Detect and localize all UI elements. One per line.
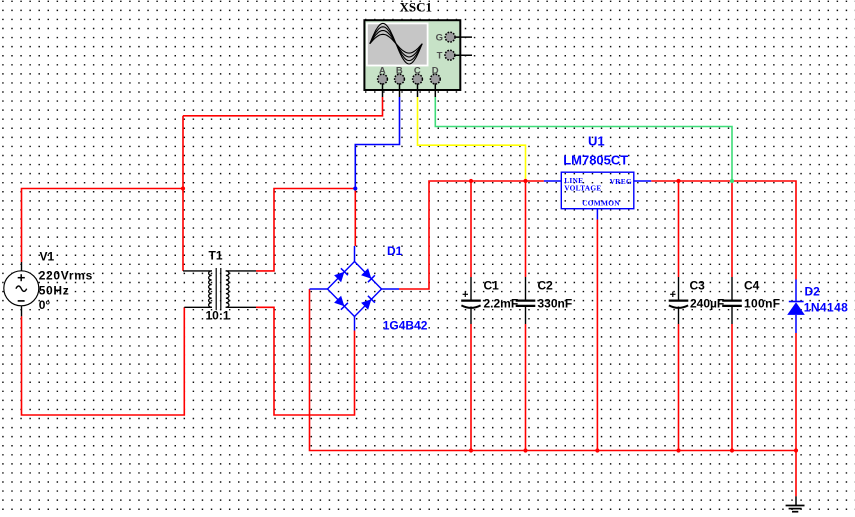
wire bridge minus to bottom bus bbox=[310, 289, 797, 451]
scope terminal B stub bbox=[399, 83, 401, 97]
wire scope channel B drop bbox=[355, 97, 399, 189]
label T1 refdes bbox=[209, 249, 223, 263]
label scope C bbox=[414, 65, 421, 76]
svg-text:D2: D2 bbox=[805, 285, 821, 299]
junction top bus C1 bbox=[469, 179, 473, 183]
label U1 refdes bbox=[588, 134, 605, 149]
wire V1 top lead (black stub) bbox=[21, 262, 23, 271]
label scope D bbox=[432, 65, 439, 76]
capacitor C2 symbol bbox=[516, 301, 536, 306]
wire V1 bottom loop to transformer primary bottom bbox=[22, 307, 185, 415]
scope terminal A stub bbox=[382, 83, 384, 97]
svg-text:1G4B42: 1G4B42 bbox=[383, 319, 428, 333]
junction bottom bus C2 bbox=[523, 448, 527, 452]
wire V1 bottom lead (black stub) bbox=[21, 305, 23, 317]
bridge rectifier D1 body bbox=[310, 246, 400, 331]
scope terminal C stub bbox=[417, 83, 419, 97]
wire C2 bottom lead (black) bbox=[525, 307, 527, 325]
node A junction bbox=[181, 186, 185, 190]
label D2 part number bbox=[804, 301, 848, 315]
label C3 refdes bbox=[690, 278, 706, 292]
wire C2 bottom (red) bbox=[525, 324, 527, 451]
wire C1 bottom lead (black) bbox=[470, 307, 472, 325]
junction bottom bus C1 bbox=[469, 448, 473, 452]
svg-text:2.2mF: 2.2mF bbox=[484, 297, 519, 311]
svg-text:T: T bbox=[437, 51, 443, 62]
label U1 pin LINE bbox=[564, 176, 583, 185]
wire C1 top (red) bbox=[470, 181, 472, 277]
label C1 value bbox=[484, 297, 519, 311]
svg-text:100nF: 100nF bbox=[744, 297, 780, 311]
wire U1 common to bottom bus bbox=[596, 220, 598, 451]
node B junction (scope B tap) bbox=[353, 186, 357, 190]
wire C4 bottom (red) bbox=[731, 324, 733, 451]
label V1 voltage bbox=[39, 269, 93, 283]
wire C4 top lead (black) bbox=[731, 277, 733, 300]
svg-text:D1: D1 bbox=[387, 244, 403, 258]
wire transformer primary top lead bbox=[183, 270, 212, 272]
bridge diode D1d (bottom-right arm) bbox=[361, 296, 375, 310]
label U1 pin VREG bbox=[610, 177, 632, 186]
wire transformer primary bottom lead bbox=[184, 306, 212, 308]
bridge diode D1c (left-bottom arm) bbox=[334, 296, 348, 310]
svg-text:T1: T1 bbox=[209, 249, 223, 263]
label C4 value bbox=[744, 297, 780, 311]
label C3 value bbox=[690, 297, 724, 311]
label XSC1 bbox=[400, 0, 433, 15]
wire top bus right of U1 bbox=[651, 181, 796, 280]
junction top bus C3 bbox=[676, 179, 680, 183]
svg-text:B: B bbox=[396, 65, 403, 76]
wire C3 top lead (black) bbox=[678, 277, 680, 300]
label V1 frequency bbox=[39, 284, 70, 298]
svg-text:V1: V1 bbox=[40, 250, 55, 264]
wire C2 top (red) bbox=[525, 181, 527, 277]
svg-text:0°: 0° bbox=[39, 298, 51, 312]
junction bottom bus C3 bbox=[676, 448, 680, 452]
AC source V1 symbol bbox=[4, 271, 39, 306]
svg-text:G: G bbox=[436, 33, 443, 44]
label scope T bbox=[437, 51, 443, 62]
scope terminal C bbox=[413, 74, 423, 84]
svg-text:C3: C3 bbox=[690, 278, 706, 292]
label D2 refdes bbox=[805, 285, 821, 299]
svg-text:LM7805CT: LM7805CT bbox=[563, 153, 628, 168]
wire scope channel A drop bbox=[183, 97, 383, 116]
svg-text:C4: C4 bbox=[744, 278, 760, 292]
label C1 refdes bbox=[484, 279, 500, 293]
label U1 part number bbox=[563, 153, 628, 168]
svg-text:VREG: VREG bbox=[610, 177, 632, 186]
svg-text:220Vrms: 220Vrms bbox=[39, 269, 93, 283]
wire node A vertical to transformer primary top bbox=[182, 116, 184, 271]
wire C1 bottom (red) bbox=[470, 324, 472, 451]
scope terminal G bbox=[445, 32, 455, 42]
label V1 refdes bbox=[40, 250, 55, 264]
bridge diode D1a (left-top arm) bbox=[334, 268, 348, 282]
wire secondary bottom to bridge bottom bbox=[256, 307, 355, 415]
svg-text:C2: C2 bbox=[538, 279, 554, 293]
wire transformer secondary bottom lead bbox=[226, 306, 256, 308]
label scope B bbox=[396, 65, 403, 76]
scope terminal B bbox=[395, 74, 405, 84]
svg-text:D: D bbox=[432, 65, 439, 76]
label C2 refdes bbox=[538, 279, 554, 293]
wire D2 junction to ground bbox=[795, 451, 797, 497]
wire C3 top (red) bbox=[678, 181, 680, 277]
junction top bus C4 / scope D tap bbox=[730, 179, 734, 183]
ground symbol bbox=[786, 496, 805, 511]
label D1 refdes bbox=[387, 244, 403, 258]
svg-text:1N4148: 1N4148 bbox=[804, 301, 848, 315]
junction bottom bus D2/ground bbox=[794, 448, 798, 452]
wire scope channel D drop bbox=[435, 97, 732, 181]
junction bottom bus U1 common bbox=[595, 448, 599, 452]
svg-text:A: A bbox=[379, 65, 386, 76]
wire C4 top (red) bbox=[731, 181, 733, 277]
junction top bus C2 / scope C tap bbox=[523, 179, 527, 183]
label C4 refdes bbox=[744, 278, 760, 292]
wire secondary top to node B bbox=[256, 189, 355, 271]
scope terminal T bbox=[445, 50, 455, 60]
svg-text:330nF: 330nF bbox=[538, 297, 573, 311]
wire C2 top lead (black) bbox=[525, 277, 527, 300]
svg-text:10:1: 10:1 bbox=[206, 309, 230, 323]
label scope G bbox=[436, 33, 443, 44]
capacitor C1 symbol bbox=[461, 292, 481, 308]
bridge diode D1b (top-right arm) bbox=[361, 268, 375, 282]
scope terminal T stub bbox=[455, 54, 472, 56]
svg-text:COMMON: COMMON bbox=[582, 198, 620, 207]
junction bottom bus C4 bbox=[730, 448, 734, 452]
wire C3 bottom lead (black) bbox=[678, 307, 680, 325]
label V1 phase bbox=[39, 298, 51, 312]
svg-text:240µF: 240µF bbox=[690, 297, 724, 311]
wire C4 bottom lead (black) bbox=[731, 307, 733, 325]
svg-text:XSC1: XSC1 bbox=[400, 0, 433, 15]
svg-text:50Hz: 50Hz bbox=[39, 284, 70, 298]
oscilloscope screen bbox=[367, 23, 428, 65]
label U1 pin COMMON bbox=[582, 198, 620, 207]
wire transformer secondary top lead bbox=[226, 270, 256, 272]
scope terminal D stub bbox=[434, 83, 436, 97]
scope terminal A bbox=[378, 74, 388, 84]
oscilloscope XSC1 body bbox=[364, 20, 460, 90]
svg-text:C: C bbox=[414, 65, 421, 76]
wire node B to bridge top bbox=[354, 189, 356, 247]
wire scope channel C drop bbox=[418, 97, 526, 181]
diode D2 symbol bbox=[787, 280, 805, 334]
oscilloscope waveform traces bbox=[370, 23, 422, 64]
label C2 value bbox=[538, 297, 573, 311]
label scope A bbox=[379, 65, 386, 76]
label T1 ratio bbox=[206, 309, 230, 323]
wire C3 bottom (red) bbox=[678, 324, 680, 451]
label U1 pin VOLTAGE bbox=[564, 184, 601, 193]
scope terminal G stub bbox=[455, 36, 472, 38]
wire V1 top to node A bbox=[22, 189, 184, 263]
scope terminal D bbox=[430, 74, 440, 84]
transformer T1 symbol bbox=[209, 268, 229, 310]
wire C1 top lead (black) bbox=[470, 277, 472, 300]
svg-text:U1: U1 bbox=[588, 134, 605, 149]
capacitor C4 symbol bbox=[722, 301, 742, 306]
svg-text:VOLTAGE: VOLTAGE bbox=[564, 184, 601, 193]
svg-text:C1: C1 bbox=[484, 279, 500, 293]
wire D2 bottom (red) bbox=[795, 333, 797, 451]
capacitor C3 symbol bbox=[669, 292, 689, 308]
voltage regulator U1 box and pins bbox=[544, 172, 651, 219]
label D1 part number bbox=[383, 319, 428, 333]
wire bridge plus riser to top bus bbox=[399, 181, 544, 289]
